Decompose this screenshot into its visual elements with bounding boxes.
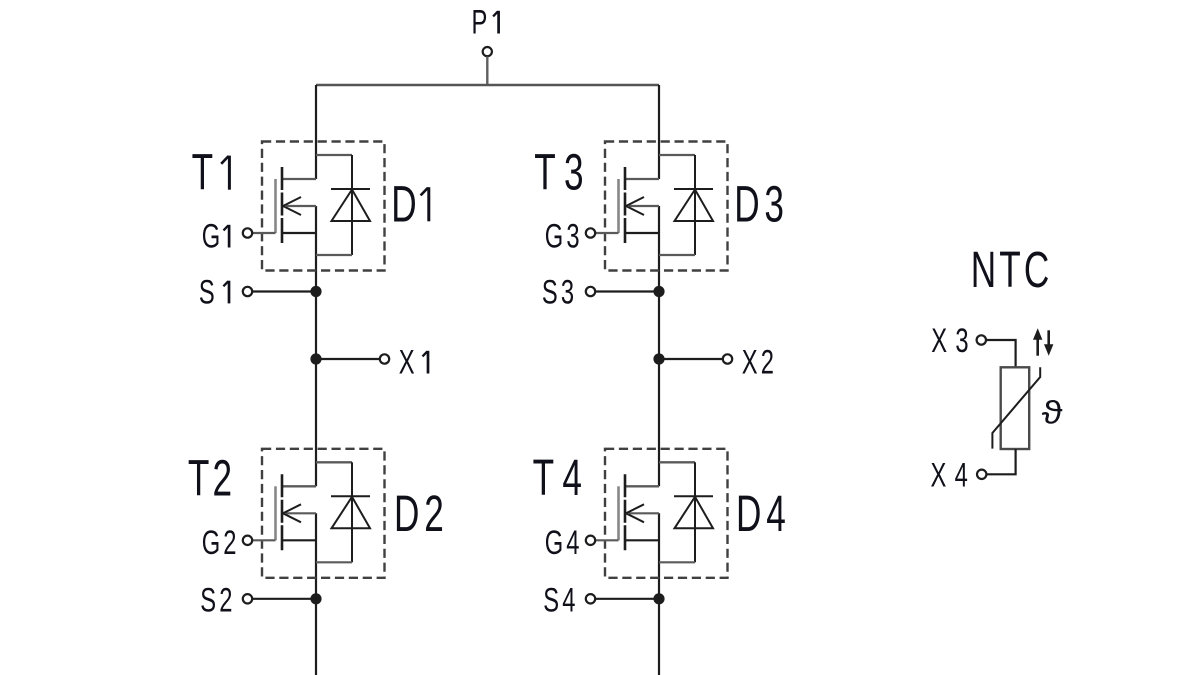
label X3 [931, 322, 977, 360]
wire: source to terminal S1 [252, 290, 316, 292]
wire: upper drain vertical at x=316 [315, 85, 317, 179]
wire: source jog from diode D2 [316, 561, 352, 563]
label X4 [931, 456, 977, 494]
wire: source jog from diode D4 [659, 561, 695, 563]
label T4 [533, 450, 591, 507]
transistor cell T2/D2 dashed outline [262, 449, 385, 578]
transistor T2 MOSFET symbol [276, 474, 317, 550]
wire: upper drain vertical at x=659 [658, 85, 660, 179]
wire: source to terminal S3 [595, 290, 659, 292]
wire: source to terminal S4 [595, 598, 659, 600]
wire: X4 to NTC bottom [986, 449, 1015, 474]
label G2 [202, 524, 240, 562]
label S4 [543, 581, 578, 619]
wire: phase-leg vertical (upper source to lower drain) [658, 206, 660, 486]
terminal S4 [586, 594, 595, 603]
svg-text:X: X [399, 343, 415, 381]
svg-text:T4: T4 [533, 450, 591, 507]
svg-text:X2: X2 [742, 343, 777, 381]
label X1 [399, 343, 428, 381]
terminal S3 [586, 287, 595, 296]
label theta [1042, 395, 1063, 430]
transistor T1 MOSFET symbol [276, 167, 317, 243]
wire: gate lead G4 [595, 539, 618, 541]
svg-text:S4: S4 [543, 581, 578, 619]
label D1 [391, 176, 429, 233]
wire: phase node to terminal [316, 358, 380, 360]
label NTC [971, 242, 1053, 299]
terminal G1 [243, 228, 252, 237]
wire: drain jog to diode D4 [659, 461, 695, 463]
label T1 [192, 144, 230, 201]
wire: phase node to terminal [659, 358, 723, 360]
label S1 [199, 273, 229, 311]
svg-text:X4: X4 [931, 456, 977, 494]
wire: source jog from diode D1 [316, 254, 352, 256]
thermistor NTC diagonal stroke [992, 367, 1040, 448]
transistor cell T4/D4 dashed outline [605, 449, 728, 578]
terminal X3 [977, 335, 986, 344]
svg-text:G4: G4 [545, 524, 583, 562]
svg-text:P: P [472, 3, 488, 41]
svg-text:NTC: NTC [971, 242, 1053, 299]
wire: X3 to NTC top [986, 340, 1016, 367]
junction dot S2 node [310, 593, 321, 604]
svg-text:T: T [192, 144, 213, 201]
wire: lower source vertical to bottom edge [315, 513, 317, 675]
label S3 [542, 273, 577, 311]
svg-text:T2: T2 [188, 450, 235, 507]
svg-text:G2: G2 [202, 524, 240, 562]
svg-text:S: S [199, 273, 215, 311]
terminal G4 [586, 536, 595, 545]
svg-text:D: D [391, 176, 416, 233]
label G3 [545, 217, 583, 255]
diode D4 (body diode, anode bottom / cathode top) [674, 462, 713, 562]
wire: P1 stub down to rail [486, 57, 488, 86]
terminal S2 [243, 594, 252, 603]
wire: lower source vertical to bottom edge [658, 513, 660, 675]
wire: drain jog to diode D2 [316, 461, 352, 463]
label T2 [188, 450, 235, 507]
wire: drain jog to diode D1 [316, 154, 352, 156]
terminal G3 [586, 228, 595, 237]
junction dot phase node [310, 353, 321, 364]
svg-text:D2: D2 [394, 486, 449, 543]
svg-text:S2: S2 [200, 581, 235, 619]
transistor T4 MOSFET symbol [619, 474, 660, 550]
wire: gate lead G1 [252, 232, 275, 234]
wire: source jog from diode D3 [659, 254, 695, 256]
svg-text:X3: X3 [931, 322, 977, 360]
wire: gate lead G3 [595, 232, 618, 234]
terminal G2 [243, 536, 252, 545]
wire: drain jog to diode D3 [659, 154, 695, 156]
wire: source to terminal S2 [252, 598, 316, 600]
transistor cell T1/D1 dashed outline [262, 142, 385, 271]
svg-text:S3: S3 [542, 273, 577, 311]
diode D3 (body diode, anode bottom / cathode top) [674, 155, 713, 255]
diode D1 (body diode, anode bottom / cathode top) [331, 155, 370, 255]
label G4 [545, 524, 583, 562]
phase terminal [380, 354, 389, 363]
junction dot S1 node [310, 286, 321, 297]
label D2 [394, 486, 449, 543]
junction dot S4 node [653, 593, 664, 604]
thermistor NTC body [1001, 367, 1029, 449]
terminal X4 [977, 470, 986, 479]
wire: gate lead G2 [252, 539, 275, 541]
label P1 [472, 3, 499, 41]
label T3 [534, 144, 592, 201]
junction dot phase node [653, 353, 664, 364]
wire: top P1 rail [316, 84, 659, 86]
terminal S1 [243, 287, 252, 296]
terminal P1 [483, 47, 492, 56]
svg-text:ϑ: ϑ [1042, 395, 1063, 430]
label D3 [734, 176, 789, 233]
bidirectional arrows (up/down) [1033, 328, 1053, 356]
svg-text:T3: T3 [534, 144, 592, 201]
diode D2 (body diode, anode bottom / cathode top) [331, 462, 370, 562]
junction dot S3 node [653, 286, 664, 297]
svg-text:D3: D3 [734, 176, 789, 233]
wire: phase-leg vertical (upper source to lower drain) [315, 206, 317, 486]
svg-text:D4: D4 [736, 486, 791, 543]
label D4 [736, 486, 791, 543]
transistor cell T3/D3 dashed outline [605, 142, 728, 271]
label S2 [200, 581, 235, 619]
phase terminal [723, 354, 732, 363]
transistor T3 MOSFET symbol [619, 167, 660, 243]
label X2 [742, 343, 777, 381]
svg-text:G: G [202, 217, 220, 255]
svg-text:G3: G3 [545, 217, 583, 255]
label G1 [202, 217, 229, 255]
